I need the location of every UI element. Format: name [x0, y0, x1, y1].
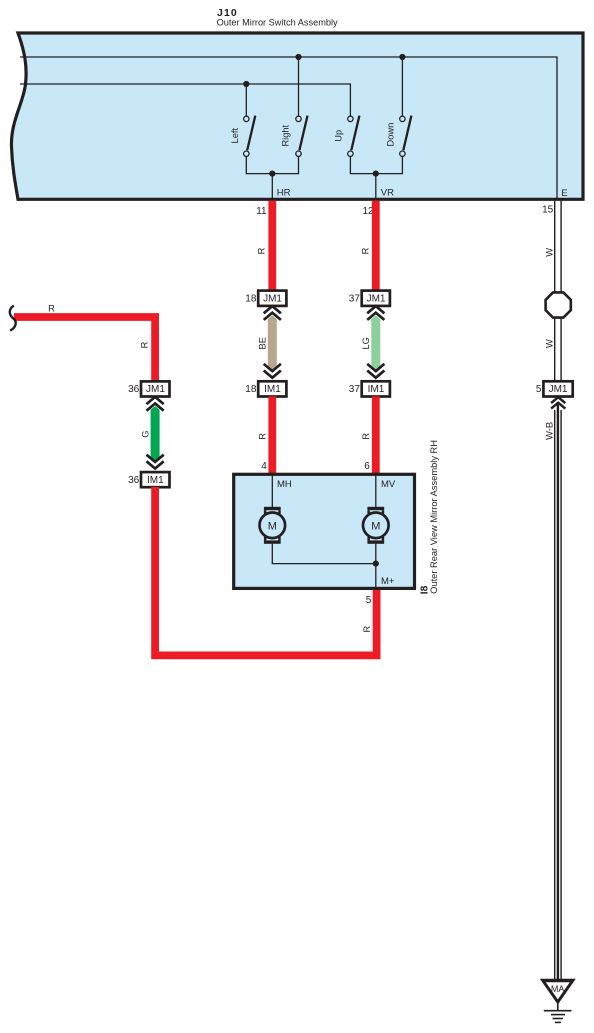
node junction bus2/Left: [243, 81, 249, 87]
svg-text:Up: Up: [333, 130, 343, 142]
svg-text:JM1: JM1: [367, 293, 386, 304]
svg-text:R: R: [48, 304, 55, 314]
svg-text:5: 5: [536, 384, 542, 395]
svg-text:W-B: W-B: [545, 422, 555, 440]
wire LG band: [371, 315, 380, 372]
wire MV to motor: [375, 474, 377, 507]
svg-text:6: 6: [364, 461, 370, 472]
svg-text:M: M: [371, 520, 380, 532]
switch Right: [281, 116, 308, 157]
svg-text:MA: MA: [551, 984, 565, 994]
wire R IM1-18 to mirror pin 4: [268, 396, 276, 474]
svg-text:Outer Mirror Switch Assembly: Outer Mirror Switch Assembly: [217, 17, 338, 27]
node VR junction: [373, 171, 379, 177]
svg-text:JM1: JM1: [549, 384, 568, 395]
svg-text:18: 18: [245, 384, 257, 395]
chevrons below JM1 (5): [551, 397, 565, 408]
svg-text:Outer Rear View Mirror Assembl: Outer Rear View Mirror Assembly RH: [429, 440, 439, 594]
switch Left: [230, 116, 256, 157]
svg-text:JM1: JM1: [263, 293, 282, 304]
node M+ junction: [373, 561, 379, 567]
wire MH to motor: [271, 474, 273, 507]
chevrons below JM1 (VR): [367, 306, 384, 320]
svg-text:MV: MV: [381, 479, 396, 490]
connector JM1 pin 36: [128, 381, 169, 396]
chevrons below JM1 (HR): [264, 306, 281, 320]
svg-text:37: 37: [349, 384, 361, 395]
wire BE band: [268, 315, 277, 372]
wire motor left to M+ bus: [272, 544, 376, 564]
svg-text:15: 15: [542, 204, 554, 215]
wire bus2 (second horizontal to Up switch): [20, 84, 350, 116]
svg-text:W: W: [544, 248, 554, 257]
wire HR to pin 11: [271, 174, 273, 199]
wire W-B to ground (double line with stripe): [555, 405, 561, 980]
chevrons above IM1 (VR): [367, 364, 384, 378]
node junction bus1/Right: [295, 54, 301, 60]
connector JM1 pin 5 (W): [536, 381, 573, 396]
wire R pin12 to JM1: [372, 201, 380, 291]
node junction bus1/Down: [399, 54, 405, 60]
connector JM1 pin 18 (HR): [245, 291, 286, 306]
wire W pin15 to junction block (double line): [555, 201, 561, 293]
wire R break symbol: [10, 306, 16, 331]
connector JM1 pin 37 (VR): [349, 291, 390, 306]
svg-text:Down: Down: [385, 123, 395, 147]
svg-text:M: M: [268, 520, 277, 532]
connector IM1 pin 18 (HR): [245, 381, 286, 396]
svg-text:R: R: [140, 341, 150, 348]
svg-text:5: 5: [366, 595, 372, 606]
svg-text:IM1: IM1: [147, 475, 164, 486]
wire VR to pin 12: [375, 174, 377, 199]
svg-text:18: 18: [245, 293, 257, 304]
ground MA: [540, 979, 576, 1023]
wire R IM1-36 down and across to mirror M+: [155, 487, 377, 655]
wire Right switch feed: [298, 57, 300, 116]
svg-text:37: 37: [349, 293, 361, 304]
wire R IM1-37 to mirror pin 6: [372, 396, 380, 474]
wire W octagon to JM1 (double line): [555, 318, 561, 381]
svg-text:HR: HR: [277, 187, 291, 198]
svg-text:IM1: IM1: [368, 384, 385, 395]
chevrons above IM1 (36): [147, 455, 164, 469]
wire R pin11 to JM1: [268, 201, 276, 291]
connector IM1 pin 37 (VR): [349, 381, 390, 396]
wire R from left edge: [14, 317, 155, 382]
switch Up: [333, 116, 359, 157]
svg-text:36: 36: [128, 475, 140, 486]
svg-text:R: R: [361, 433, 371, 440]
connector J10 label: [217, 7, 338, 28]
wire VR collector: [350, 156, 402, 173]
chevrons above IM1 (HR): [264, 364, 281, 378]
splice octagon: [546, 292, 571, 317]
svg-text:4: 4: [261, 461, 267, 472]
svg-text:11: 11: [256, 206, 267, 217]
svg-text:JM1: JM1: [146, 384, 165, 395]
svg-text:R: R: [361, 247, 371, 254]
wire motor right to M+ bus: [375, 544, 377, 589]
component box I8 Outer Rear View Mirror Assembly RH: [234, 474, 415, 588]
node HR junction: [269, 171, 275, 177]
svg-text:R: R: [258, 433, 268, 440]
wire G band: [151, 406, 160, 463]
svg-text:W: W: [544, 339, 554, 348]
switch Down: [385, 116, 411, 157]
motor M vertical (right): [363, 507, 389, 544]
svg-text:R: R: [362, 626, 372, 633]
svg-text:IM1: IM1: [264, 384, 281, 395]
svg-text:VR: VR: [381, 187, 394, 198]
svg-text:BE: BE: [258, 337, 268, 349]
svg-text:M+: M+: [381, 576, 395, 587]
svg-text:R: R: [256, 247, 266, 254]
connector IM1 pin 36: [128, 472, 169, 487]
wire bus1 (top horizontal to E): [20, 57, 557, 199]
svg-text:E: E: [561, 188, 567, 199]
svg-text:Right: Right: [281, 124, 291, 146]
svg-text:MH: MH: [277, 479, 292, 490]
wire Down switch feed: [401, 57, 403, 116]
chevrons below JM1 (36): [147, 397, 164, 411]
svg-text:36: 36: [128, 384, 140, 395]
svg-text:LG: LG: [361, 337, 371, 349]
motor M horizontal (left): [260, 507, 286, 544]
wire Left switch feed: [245, 84, 247, 116]
svg-text:G: G: [140, 431, 150, 438]
component box J10 Outer Mirror Switch Assembly: [11, 33, 583, 199]
wire HR collector: [246, 156, 298, 173]
svg-text:Left: Left: [230, 128, 240, 144]
